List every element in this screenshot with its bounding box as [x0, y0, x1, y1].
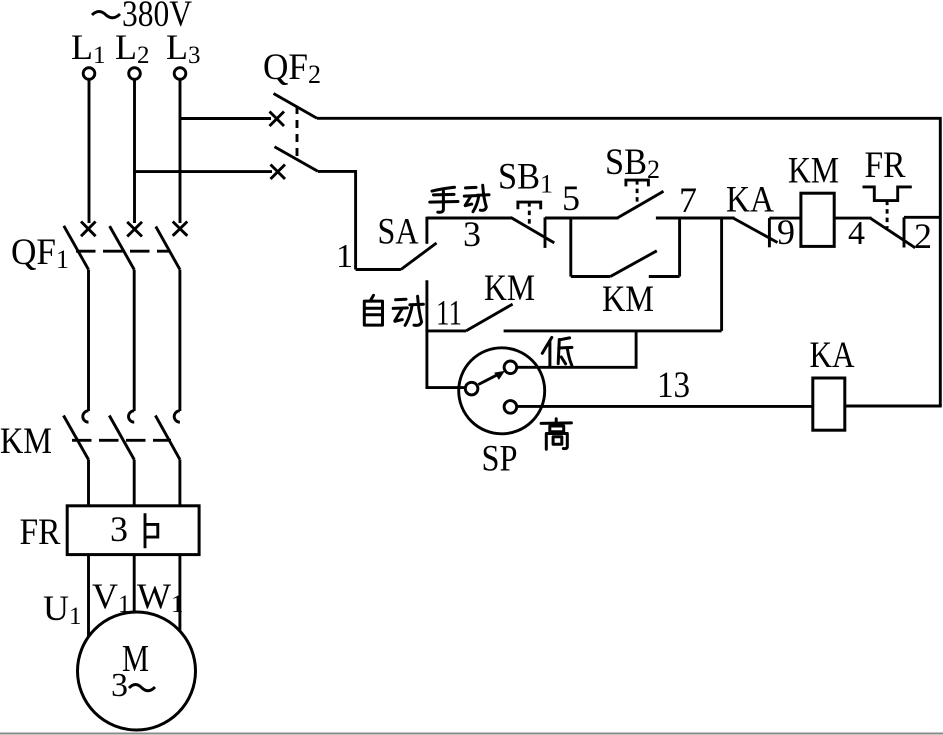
- wire L2 to QF2 lower pole: [135, 170, 273, 173]
- breaker QF1 pole3 terminal X: [173, 222, 188, 236]
- svg-text:L1: L1: [71, 27, 106, 69]
- breaker QF2 lower pole blade: [275, 147, 319, 172]
- svg-text:FR: FR: [20, 512, 61, 553]
- node 5 branch down: [569, 218, 572, 277]
- contact KA fixed terminal bar: [768, 218, 771, 247]
- contact KM self-holding right lead: [649, 275, 680, 278]
- wire phase3 FR to motor: [178, 555, 181, 632]
- svg-text:7: 7: [679, 180, 697, 220]
- motor M circle: [78, 612, 196, 730]
- node 7 branch down: [678, 218, 681, 277]
- svg-text:11: 11: [436, 293, 462, 333]
- wire SA to SB1: [427, 217, 512, 220]
- label dong of shoudong (CJK): [464, 185, 489, 211]
- terminal L1: [83, 68, 95, 80]
- svg-text:SA: SA: [378, 212, 419, 253]
- contactor KM pole3 arc: [174, 411, 180, 422]
- coil KA: [813, 378, 845, 430]
- wire SP high contact to KA coil (node 13): [517, 405, 813, 408]
- scan artifact bottom edge: [0, 733, 943, 735]
- terminal L2: [129, 68, 141, 80]
- svg-text:KM: KM: [788, 151, 839, 192]
- pressure switch SP common terminal: [465, 382, 478, 395]
- contact KA blade: [733, 218, 777, 242]
- svg-text:13: 13: [657, 365, 690, 406]
- wire KM coil to FR contact: [834, 217, 871, 220]
- label ~380V supply: [92, 0, 192, 35]
- label di low (CJK): [542, 337, 572, 366]
- svg-text:SB2: SB2: [605, 142, 660, 184]
- pressure switch SP high terminal: [504, 401, 517, 414]
- breaker QF1 pole1 terminal X: [81, 222, 96, 237]
- label zidong auto (CJK) zi: [364, 295, 382, 325]
- wire L3 to QF2 upper pole: [180, 117, 271, 120]
- pushbutton SB2 plunger stem dashed: [636, 180, 639, 206]
- wire phase1 KM to FR: [87, 460, 90, 507]
- breaker QF1 pole2 terminal X: [127, 222, 142, 237]
- pushbutton SB1 plunger: [518, 202, 541, 209]
- breaker QF2 upper pole terminal X: [270, 112, 285, 127]
- wire SB1 to SB2: [545, 217, 619, 220]
- pressure switch SP wiper arrow: [478, 371, 505, 385]
- svg-text:U1: U1: [43, 588, 82, 630]
- selector SA manual contact stub: [425, 217, 428, 244]
- terminal L3: [174, 68, 186, 80]
- selector SA lower lead: [356, 268, 401, 271]
- pushbutton SB1 fixed terminal bar: [544, 217, 547, 248]
- contactor KM pole3 blade: [155, 416, 180, 460]
- wire L1 vertical: [88, 80, 91, 224]
- contactor KM pole1 blade: [64, 416, 89, 460]
- wire phase1 QF1 to KM: [87, 270, 90, 411]
- svg-text:5: 5: [562, 178, 580, 218]
- svg-text:4: 4: [848, 215, 865, 252]
- svg-text:KA: KA: [810, 335, 855, 376]
- thermal relay FR heater element symbol: [145, 513, 158, 548]
- wire top rail from QF2 to right: [317, 118, 940, 406]
- selector SA auto contact stub and wire down to SP: [427, 280, 466, 387]
- svg-text:QF2: QF2: [263, 47, 321, 89]
- svg-text:KA: KA: [726, 180, 774, 221]
- contact FR fixed terminal bar: [903, 217, 906, 247]
- svg-text:KM: KM: [0, 421, 52, 462]
- wire phase3 KM to FR: [178, 460, 181, 507]
- wire phase2 QF1 to KM: [133, 270, 136, 411]
- wire KA contact to KM coil: [769, 217, 801, 220]
- auto branch node 11 lead: [427, 329, 466, 332]
- contact KM self-holding blade: [610, 251, 656, 277]
- breaker QF1 pole1 blade: [64, 226, 89, 270]
- branch down at x722 to auto line: [720, 218, 723, 331]
- breaker QF2 lower pole terminal X: [271, 165, 286, 180]
- thermal relay FR box: [67, 506, 199, 555]
- pressure switch SP low terminal: [504, 361, 517, 374]
- wire node7 to KA contact: [680, 217, 735, 220]
- wire phase2 FR to motor: [133, 555, 136, 613]
- svg-text:3: 3: [111, 667, 128, 704]
- svg-text:SB1: SB1: [498, 157, 553, 199]
- label gao high (CJK): [541, 419, 571, 450]
- pushbutton SB1 plunger stem dashed: [528, 202, 531, 228]
- label 3~: [111, 667, 155, 704]
- breaker QF2 linkage dashed: [296, 106, 299, 159]
- svg-text:SP: SP: [482, 439, 518, 480]
- contactor KM pole2 arc: [128, 411, 134, 422]
- svg-text:1: 1: [336, 238, 353, 275]
- pushbutton SB2 blade: [618, 191, 664, 218]
- contact KM auto right lead: [504, 329, 722, 332]
- wire phase2 KM to FR: [133, 460, 136, 507]
- label zidong auto (CJK) dong: [393, 296, 423, 325]
- pushbutton SB1 blade: [511, 217, 555, 243]
- wire KA coil to right rail: [845, 405, 942, 408]
- wire phase1 FR to motor: [87, 555, 90, 637]
- breaker QF1 pole3 blade: [156, 227, 180, 270]
- svg-text:3: 3: [110, 509, 128, 549]
- svg-text:3: 3: [463, 214, 481, 254]
- contactor KM linkage dashed: [72, 439, 171, 442]
- selector SA blade: [401, 243, 437, 270]
- wire QF2 lower out to node 1: [318, 171, 356, 269]
- wire FR contact to right rail: [904, 216, 940, 219]
- contactor KM pole1 arc: [83, 411, 89, 422]
- svg-text:KM: KM: [602, 279, 654, 320]
- pressure switch SP body circle: [459, 348, 545, 434]
- svg-text:KM: KM: [484, 268, 535, 309]
- svg-text:QF1: QF1: [11, 232, 69, 274]
- coil KM: [801, 193, 834, 246]
- thermal contact FR symbol top: [863, 187, 912, 201]
- wire SB2 right lead to node 7: [656, 217, 681, 220]
- contactor KM pole2 blade: [109, 416, 134, 460]
- wire phase3 QF1 to KM: [178, 270, 181, 411]
- contact KM auto blade: [466, 304, 513, 331]
- thermal contact FR stem dashed: [886, 201, 889, 228]
- contact FR blade: [870, 218, 915, 248]
- breaker QF2 upper pole blade: [274, 94, 318, 119]
- label shoudong manual (CJK): [430, 187, 458, 212]
- breaker QF1 linkage dashed: [76, 250, 169, 253]
- svg-text:2: 2: [914, 216, 932, 256]
- wire L2 vertical: [133, 80, 136, 224]
- wire SP low contact to auto line: [517, 331, 636, 367]
- svg-text:FR: FR: [865, 145, 906, 186]
- breaker QF1 pole2 blade: [110, 226, 135, 270]
- contact KM self-holding lower wire: [571, 275, 611, 278]
- svg-text:L3: L3: [166, 27, 201, 69]
- pushbutton SB2 plunger: [626, 180, 649, 186]
- wire L3 vertical: [179, 80, 182, 224]
